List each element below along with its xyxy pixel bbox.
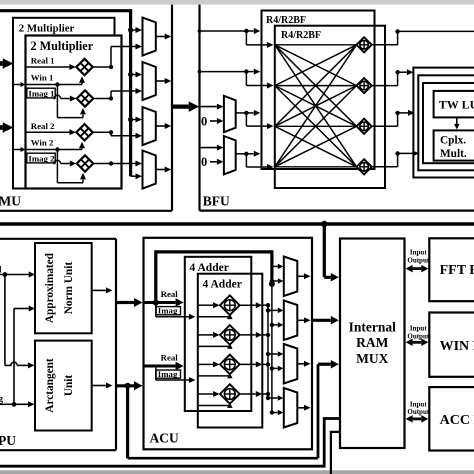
svg-text:Output: Output <box>407 256 429 264</box>
svg-text:4 Adder: 4 Adder <box>203 278 242 290</box>
svg-text:Imag: Imag <box>158 306 178 316</box>
svg-text:4 Adder: 4 Adder <box>190 262 229 274</box>
svg-text:R4/R2BF: R4/R2BF <box>281 30 321 41</box>
svg-text:Imag 2: Imag 2 <box>28 153 55 163</box>
svg-text:Approximated: Approximated <box>44 252 56 323</box>
svg-text:g: g <box>0 394 4 404</box>
svg-text:Real: Real <box>161 353 179 363</box>
svg-text:Imag 1: Imag 1 <box>28 88 54 98</box>
svg-text:Input: Input <box>410 249 427 257</box>
svg-text:0: 0 <box>201 155 207 169</box>
svg-text:Real 2: Real 2 <box>31 121 55 131</box>
svg-text:BFU: BFU <box>203 194 230 209</box>
svg-text:Win 2: Win 2 <box>31 137 54 147</box>
svg-text:TW LUT: TW LUT <box>439 98 474 112</box>
svg-text:2 Multiplier: 2 Multiplier <box>31 39 94 53</box>
svg-text:R4/R2BF: R4/R2BF <box>266 15 306 26</box>
svg-text:MU: MU <box>0 194 21 209</box>
svg-text:Output: Output <box>407 408 429 416</box>
svg-text:Cplx.: Cplx. <box>440 135 466 147</box>
svg-text:MUX: MUX <box>356 351 388 366</box>
svg-text:Arctangent: Arctangent <box>44 358 56 413</box>
svg-text:Input: Input <box>410 325 427 333</box>
svg-text:ACU: ACU <box>150 431 179 446</box>
svg-text:PU: PU <box>0 433 16 448</box>
svg-text:Imag: Imag <box>158 369 178 379</box>
svg-text:Input: Input <box>410 400 427 408</box>
svg-text:Win 1: Win 1 <box>31 72 54 82</box>
svg-text:Norm Unit: Norm Unit <box>63 262 75 315</box>
svg-text:FFT RAM: FFT RAM <box>440 263 474 278</box>
svg-text:Output: Output <box>407 332 429 340</box>
svg-text:ACC RAM: ACC RAM <box>440 413 474 428</box>
svg-text:WIN RAM: WIN RAM <box>440 339 474 354</box>
svg-text:Real: Real <box>161 289 179 299</box>
svg-text:Real 1: Real 1 <box>31 56 55 66</box>
svg-text:Unit: Unit <box>63 375 75 397</box>
svg-text:0: 0 <box>201 114 207 128</box>
svg-text:Mult.: Mult. <box>440 148 467 160</box>
svg-text:2 Multiplier: 2 Multiplier <box>19 22 75 34</box>
svg-text:Internal: Internal <box>349 320 396 335</box>
svg-text:RAM: RAM <box>356 335 388 350</box>
